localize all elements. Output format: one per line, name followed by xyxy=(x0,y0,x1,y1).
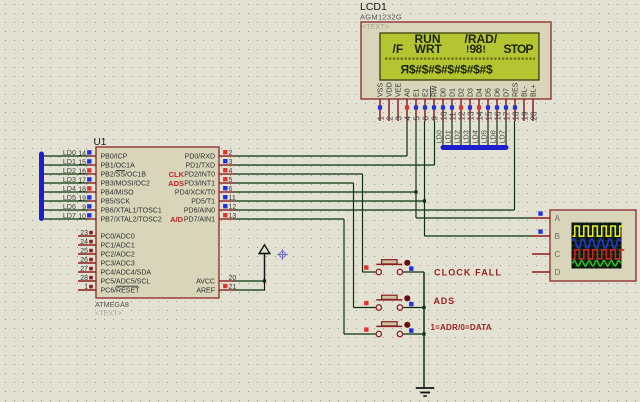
svg-text:LD7: LD7 xyxy=(63,211,76,220)
svg-text:ADS: ADS xyxy=(434,296,455,306)
wire LCD D3 to bus xyxy=(469,121,471,146)
svg-text:15: 15 xyxy=(484,111,493,120)
svg-text:D2: D2 xyxy=(459,88,466,97)
waveform D (green sine) xyxy=(573,261,621,267)
wire LCD D1 to bus xyxy=(451,121,453,146)
wire PD1 to LCD RW xyxy=(233,121,435,165)
wire LCD D0 to bus xyxy=(442,121,444,146)
wire LCD D5 to bus xyxy=(487,121,489,146)
svg-text:D7: D7 xyxy=(504,88,511,97)
IC U1 body (ATMEGA8) xyxy=(96,147,219,298)
svg-text:LD7: LD7 xyxy=(498,130,507,143)
svg-text:17: 17 xyxy=(502,111,511,120)
svg-text:D6: D6 xyxy=(495,88,502,97)
svg-text:PB7/XTAL2/TOSC2: PB7/XTAL2/TOSC2 xyxy=(101,217,162,224)
U1 pin 5 (PD3/INT1) xyxy=(184,177,233,188)
wire PD6 to LCD RES xyxy=(233,121,515,210)
oscilloscope screen xyxy=(572,223,622,269)
wire LD4 (bus to U1 pin) xyxy=(44,191,88,193)
svg-text:BL-: BL- xyxy=(522,85,529,97)
wire PD0 to LCD A0 xyxy=(233,121,407,156)
LCD1 pin 20 (BL+) xyxy=(529,84,538,121)
LCD1 pin 17 (D7) xyxy=(502,88,511,121)
wire LCD D2 to bus xyxy=(460,121,462,146)
svg-text:Я$#$#$#$#$#$#$: Я$#$#$#$#$#$#$ xyxy=(401,62,493,76)
svg-text:D0: D0 xyxy=(441,88,448,97)
oscilloscope pin B xyxy=(532,229,561,240)
push button CLOCK FALL xyxy=(364,260,413,275)
oscilloscope pin A xyxy=(532,211,561,222)
U1 pin 15 (PB1/OC1A) xyxy=(78,159,135,169)
power symbol VCC arrow xyxy=(259,245,271,281)
LCD1 pin 6 (E2) xyxy=(421,88,430,121)
LCD screen text /F WRT xyxy=(393,42,443,56)
svg-text:1=ADR/0=DATA: 1=ADR/0=DATA xyxy=(431,323,492,332)
junction button ADS / ground rail xyxy=(422,306,425,309)
wire A/D (PD7 to button) xyxy=(233,219,344,334)
svg-text:VEE: VEE xyxy=(396,83,403,97)
wire PD5 to LCD E2 and scope B xyxy=(233,121,532,236)
svg-text:A: A xyxy=(555,214,561,223)
U1 pin 17 (PB3/MOSI/OC2) xyxy=(78,177,150,187)
svg-text:24: 24 xyxy=(80,239,88,246)
svg-text:27: 27 xyxy=(80,266,88,273)
svg-text:LD0: LD0 xyxy=(435,130,444,143)
U1 pin 18 (PB4/MISO) xyxy=(78,186,134,196)
LCD1 pin 5 (E1) xyxy=(412,88,421,121)
junction PD4/E1 xyxy=(414,190,417,193)
LCD1 screen xyxy=(380,33,539,80)
waveform C (red square) xyxy=(573,250,625,259)
wire 1=ADR/0=DATA right terminal to ground rail xyxy=(403,333,424,335)
wire LD6 (bus to U1 pin) xyxy=(44,209,88,211)
svg-text:PC5/ADC5/SCL: PC5/ADC5/SCL xyxy=(101,279,151,286)
svg-text:CLK: CLK xyxy=(169,170,185,179)
svg-text:LD3: LD3 xyxy=(63,175,76,184)
svg-text:PB5/SCK: PB5/SCK xyxy=(101,199,131,206)
U1 pin 4 (PD2/INT0) xyxy=(184,168,233,179)
svg-text:1: 1 xyxy=(376,116,385,121)
wire to CLOCK FALL left terminal xyxy=(363,271,376,273)
oscilloscope body xyxy=(550,210,636,281)
svg-text:12: 12 xyxy=(457,111,466,120)
wire CLOCK FALL right terminal to ground rail xyxy=(403,271,424,273)
LCD screen text !98! xyxy=(466,42,486,56)
svg-text:VSS: VSS xyxy=(378,83,385,97)
U1 pin 14 (PB0/ICP) xyxy=(78,150,127,160)
svg-text:PB6/XTAL1/TOSC1: PB6/XTAL1/TOSC1 xyxy=(101,208,162,215)
LCD1 pin 18 (RES) xyxy=(511,82,520,121)
svg-text:PB4/MISO: PB4/MISO xyxy=(101,190,135,197)
U1 pin 10 (PB7/XTAL2/TOSC2) xyxy=(78,213,162,223)
push button ADS xyxy=(364,295,413,310)
svg-text:28: 28 xyxy=(80,275,88,282)
svg-text:9: 9 xyxy=(430,116,439,121)
svg-text:PC2/ADC2: PC2/ADC2 xyxy=(101,252,135,259)
svg-text:LD6: LD6 xyxy=(63,202,76,211)
svg-text:LD1: LD1 xyxy=(63,157,76,166)
svg-text:RW: RW xyxy=(432,85,439,97)
U1 pin 16 (PB2/SS/OC1B) xyxy=(78,168,146,178)
svg-text:LD0: LD0 xyxy=(63,148,76,157)
svg-text:20: 20 xyxy=(529,111,538,120)
svg-text:D: D xyxy=(555,268,561,277)
svg-text:4: 4 xyxy=(229,168,233,175)
svg-text:STOP: STOP xyxy=(504,42,534,56)
svg-text:WRT: WRT xyxy=(415,42,443,56)
svg-text:LD5: LD5 xyxy=(63,193,76,202)
wire LD1 (bus to U1 pin) xyxy=(44,164,88,166)
wire to 1=ADR/0=DATA left terminal xyxy=(344,333,376,335)
ground xyxy=(416,388,435,396)
wire LD5 (bus to U1 pin) xyxy=(44,200,88,202)
svg-text:LD6: LD6 xyxy=(489,130,498,143)
wire PD4 to LCD E1 and scope A xyxy=(233,121,532,218)
svg-text:U1: U1 xyxy=(94,137,107,148)
wire LD2 (bus to U1 pin) xyxy=(44,173,88,175)
svg-text:VDD: VDD xyxy=(387,82,394,97)
svg-text:E1: E1 xyxy=(414,88,421,97)
svg-text:LCD1: LCD1 xyxy=(360,1,387,13)
svg-text:D4: D4 xyxy=(477,88,484,97)
svg-text:PD1/TXD: PD1/TXD xyxy=(185,163,215,170)
svg-text:5: 5 xyxy=(229,177,233,184)
svg-text:E2: E2 xyxy=(423,88,430,97)
LCD1 pin 9 (RW) xyxy=(430,85,439,121)
wire LD3 (bus to U1 pin) xyxy=(44,182,88,184)
svg-text:18: 18 xyxy=(511,111,520,120)
svg-text:5: 5 xyxy=(412,116,421,121)
U1 pin 24 (PC1/ADC1) xyxy=(78,239,135,250)
svg-text:PD5/T1: PD5/T1 xyxy=(191,199,215,206)
svg-text:26: 26 xyxy=(80,257,88,264)
U1 pin 11 (PD5/T1) xyxy=(191,195,236,206)
origin marker xyxy=(277,249,288,260)
svg-text:3: 3 xyxy=(394,116,403,121)
svg-text:10: 10 xyxy=(439,111,448,120)
svg-text:LD2: LD2 xyxy=(453,130,462,143)
U1 pin 6 (PD4/XCK/T0) xyxy=(175,186,233,197)
svg-text:B: B xyxy=(555,232,561,241)
svg-text:2: 2 xyxy=(229,150,233,157)
svg-text:LD5: LD5 xyxy=(480,130,489,143)
svg-text:PC0/ADC0: PC0/ADC0 xyxy=(101,234,135,241)
U1 pin 3 (PD1/TXD) xyxy=(185,159,233,170)
LCD1 pin 13 (D3) xyxy=(466,88,475,121)
svg-text:98: 98 xyxy=(470,42,483,56)
LCD1 pin 15 (D5) xyxy=(484,88,493,121)
svg-text:PB0/ICP: PB0/ICP xyxy=(101,154,128,161)
svg-text:C: C xyxy=(555,250,561,259)
svg-text:CLOCK FALL: CLOCK FALL xyxy=(434,267,502,277)
U1 pin 9 (PB6/XTAL1/TOSC1) xyxy=(82,204,162,214)
LCD1 pin 19 (BL-) xyxy=(520,85,529,121)
U1 pin 25 (PC2/ADC2) xyxy=(78,248,135,259)
U1 pin 28 (PC5/ADC5/SCL) xyxy=(78,275,150,286)
svg-text:3: 3 xyxy=(229,159,233,166)
svg-text:D3: D3 xyxy=(468,88,475,97)
svg-text:PD0/RXD: PD0/RXD xyxy=(185,154,215,161)
LCD1 pin 10 (D0) xyxy=(439,88,448,121)
U1 pin 13 (PD7/AIN1) xyxy=(184,213,237,224)
svg-text:2: 2 xyxy=(385,116,394,121)
svg-text:PD2/INT0: PD2/INT0 xyxy=(184,172,215,179)
wire to ADS left terminal xyxy=(354,307,376,309)
wire LCD D6 to bus xyxy=(496,121,498,146)
svg-text:6: 6 xyxy=(229,186,233,193)
oscilloscope pin D xyxy=(532,268,561,277)
U1 pin 20 (AVCC) xyxy=(196,275,236,286)
junction AVCC/AREF xyxy=(263,279,266,282)
svg-text:!: ! xyxy=(483,45,486,56)
svg-text:PC4/ADC4/SDA: PC4/ADC4/SDA xyxy=(101,270,152,277)
svg-text:4: 4 xyxy=(403,116,412,121)
svg-text:BL+: BL+ xyxy=(531,84,538,97)
wire LD0 (bus to U1 pin) xyxy=(44,155,88,157)
LCD1 pin 4 (A0) xyxy=(403,88,412,121)
LCD1 body (AGM1232G) xyxy=(361,22,551,99)
bus LD0-LD7 (LCD) xyxy=(441,145,509,150)
svg-text:19: 19 xyxy=(520,111,529,120)
wire AREF to power rail xyxy=(233,281,265,291)
LCD1 pin 14 (D4) xyxy=(475,88,484,121)
junction PD5/E2 xyxy=(423,199,426,202)
svg-text:23: 23 xyxy=(80,230,88,237)
svg-text:25: 25 xyxy=(80,248,88,255)
LCD1 pin 3 (VEE) xyxy=(394,83,403,121)
svg-text:A/D: A/D xyxy=(170,215,184,224)
svg-text:11: 11 xyxy=(448,112,457,121)
svg-text:16: 16 xyxy=(493,111,502,120)
svg-text:13: 13 xyxy=(466,111,475,120)
wire LCD D4 to bus xyxy=(478,121,480,146)
oscilloscope pin C xyxy=(532,250,561,259)
svg-text:<TEXT>: <TEXT> xyxy=(362,22,389,31)
svg-text:LD4: LD4 xyxy=(471,130,480,143)
svg-text:D1: D1 xyxy=(450,88,457,97)
svg-text:PB3/MOSI/OC2: PB3/MOSI/OC2 xyxy=(101,181,151,188)
wire LD7 (bus to U1 pin) xyxy=(44,218,88,220)
wire CLK (PD2 to button) xyxy=(233,174,363,272)
svg-text:PD3/INT1: PD3/INT1 xyxy=(184,181,215,188)
svg-text:PC1/ADC1: PC1/ADC1 xyxy=(101,243,135,250)
bus LD0-LD7 (left) xyxy=(39,152,44,222)
wire ground rail xyxy=(423,272,425,388)
wire ADS right terminal to ground rail xyxy=(403,307,424,309)
push button 1=ADR/0=DATA xyxy=(364,322,413,337)
U1 pin 23 (PC0/ADC0) xyxy=(78,230,135,241)
U1 pin 2 (PD0/RXD) xyxy=(185,150,233,161)
svg-text:LD2: LD2 xyxy=(63,166,76,175)
U1 pin 27 (PC4/ADC4/SDA) xyxy=(78,266,151,277)
junction button A/D / ground rail xyxy=(422,332,425,335)
svg-text:PD7/AIN1: PD7/AIN1 xyxy=(184,217,215,224)
svg-text:PC6/RESET: PC6/RESET xyxy=(101,288,141,295)
wire AVCC to power rail xyxy=(233,280,265,282)
svg-text:/F: /F xyxy=(393,42,404,56)
U1 pin 19 (PB5/SCK) xyxy=(78,195,130,205)
wire ADS (PD3 to button) xyxy=(233,183,354,308)
LCD screen separator row xyxy=(385,57,535,59)
svg-text:14: 14 xyxy=(475,111,484,120)
LCD1 pin 12 (D2) xyxy=(457,88,466,121)
svg-text:PB1/OC1A: PB1/OC1A xyxy=(101,163,136,170)
waveform A (yellow square) xyxy=(573,226,625,236)
wire LCD D7 to bus xyxy=(505,121,507,146)
svg-text:6: 6 xyxy=(421,116,430,121)
svg-text:AVCC: AVCC xyxy=(196,279,215,286)
waveform B (blue sine) xyxy=(573,239,621,248)
U1 pin 1 (PC6/RESET) xyxy=(78,284,140,295)
svg-text:<TEXT>: <TEXT> xyxy=(95,309,122,318)
U1 pin 26 (PC3/ADC3) xyxy=(78,257,135,268)
svg-text:D5: D5 xyxy=(486,88,493,97)
LCD1 pin 16 (D6) xyxy=(493,88,502,121)
svg-text:PB2/SS/OC1B: PB2/SS/OC1B xyxy=(101,172,147,179)
svg-text:AREF: AREF xyxy=(196,288,215,295)
svg-text:LD4: LD4 xyxy=(63,184,76,193)
svg-text:RES: RES xyxy=(513,82,520,97)
U1 pin 21 (AREF) xyxy=(196,284,236,295)
svg-text:1: 1 xyxy=(84,284,88,291)
LCD1 pin 1 (VSS) xyxy=(376,83,385,121)
LCD1 pin 11 (D1) xyxy=(448,88,457,121)
svg-text:AGM1232G: AGM1232G xyxy=(360,13,402,22)
svg-text:A0: A0 xyxy=(405,88,412,97)
svg-text:PC3/ADC3: PC3/ADC3 xyxy=(101,261,135,268)
svg-text:PD4/XCK/T0: PD4/XCK/T0 xyxy=(175,190,215,197)
svg-text:ADS: ADS xyxy=(168,179,184,188)
LCD1 pin 2 (VDD) xyxy=(385,82,394,121)
svg-text:LD1: LD1 xyxy=(444,130,453,143)
svg-text:PD6/AIN0: PD6/AIN0 xyxy=(184,208,215,215)
svg-text:LD3: LD3 xyxy=(462,130,471,143)
U1 pin 12 (PD6/AIN0) xyxy=(184,204,237,215)
